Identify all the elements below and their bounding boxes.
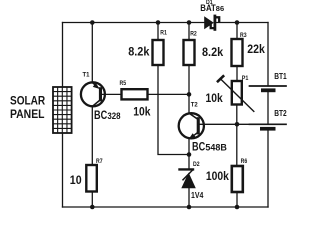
wire node B down to T2 collector <box>188 94 190 113</box>
solar panel <box>53 87 72 133</box>
wire T2 base to node C and battery centre tap <box>198 123 268 125</box>
wire P1 bottom to node C <box>236 105 238 125</box>
wire T1 base to R5 <box>102 93 122 95</box>
svg-text:R6: R6 <box>241 158 248 165</box>
svg-text:SOLAR: SOLAR <box>10 94 45 108</box>
resistor R5 <box>122 89 148 99</box>
battery BT1 <box>250 86 287 92</box>
svg-text:R1: R1 <box>160 30 167 37</box>
svg-text:10k: 10k <box>206 91 223 105</box>
svg-text:T2: T2 <box>191 102 198 109</box>
svg-text:1V4: 1V4 <box>191 190 204 200</box>
transistor T2 <box>179 113 204 139</box>
resistor R6 <box>232 166 243 207</box>
svg-text:BC: BC <box>94 108 107 122</box>
svg-text:22k: 22k <box>247 42 265 56</box>
wire T2 emitter down to D2 <box>188 139 190 169</box>
battery BT2 <box>250 124 287 130</box>
svg-text:10k: 10k <box>133 105 150 119</box>
svg-text:P1: P1 <box>242 75 249 82</box>
svg-text:D2: D2 <box>193 161 200 168</box>
svg-text:BC: BC <box>192 139 205 153</box>
wire right rail <box>267 23 269 86</box>
wire bottom rail <box>63 206 269 208</box>
wire R2 bottom to node B <box>188 65 190 94</box>
svg-text:8.2k: 8.2k <box>128 45 149 59</box>
svg-text:R3: R3 <box>240 32 247 39</box>
svg-text:R5: R5 <box>120 80 127 87</box>
svg-text:R2: R2 <box>190 31 197 38</box>
svg-text:T1: T1 <box>83 72 90 79</box>
resistor R3 <box>232 23 243 67</box>
transistor T1 <box>81 82 105 106</box>
svg-text:8.2k: 8.2k <box>202 45 223 59</box>
potentiometer P1 <box>218 76 254 111</box>
diode D1 <box>204 16 219 29</box>
svg-text:10: 10 <box>70 173 82 187</box>
svg-text:PANEL: PANEL <box>10 107 45 121</box>
wire D2 to bottom rail <box>188 188 190 207</box>
svg-text:548B: 548B <box>205 142 227 152</box>
svg-text:BAT86: BAT86 <box>200 3 224 13</box>
svg-text:BT1: BT1 <box>274 72 287 81</box>
resistor R1 <box>153 23 164 66</box>
zener diode D2 <box>180 169 196 188</box>
resistor R2 <box>184 23 195 66</box>
wire T1 emitter from top rail <box>91 23 93 83</box>
wire left rail <box>62 23 64 88</box>
wire R3 to P1 <box>236 66 238 81</box>
wire R5 to node B <box>148 93 190 95</box>
svg-text:R7: R7 <box>96 158 103 165</box>
wire T1 collector down to R7 <box>91 107 93 166</box>
label SOLAR PANEL <box>10 94 45 121</box>
wire top rail <box>63 22 269 24</box>
svg-text:328: 328 <box>107 111 120 121</box>
svg-text:100k: 100k <box>206 169 229 183</box>
svg-text:BT2: BT2 <box>274 109 287 118</box>
node junction dots <box>90 20 239 209</box>
resistor R7 <box>86 165 97 207</box>
wire R1 bottom down and right to T2 emitter node <box>158 65 189 155</box>
wire node C down to R6 <box>236 124 238 166</box>
